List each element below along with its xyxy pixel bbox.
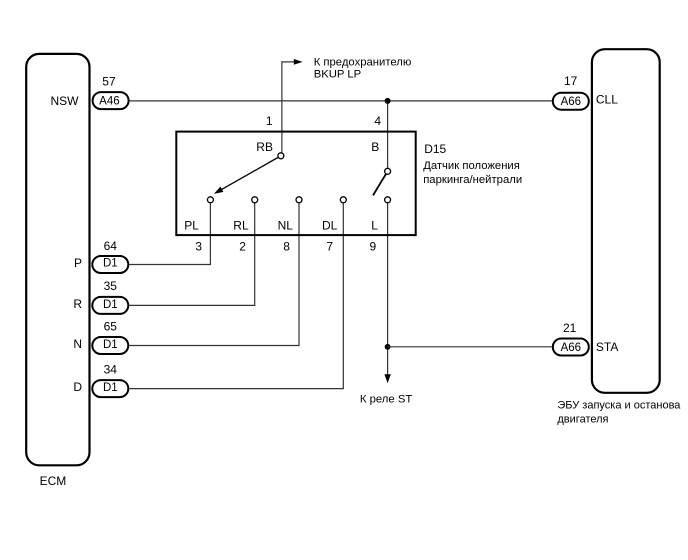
pin number 35 [104, 279, 118, 293]
svg-text:PL: PL [184, 219, 199, 233]
wire pin 1 riser to fuse BKUP LP with arrow [282, 59, 303, 153]
junction dot at STA branch [385, 344, 391, 350]
pin label NL [278, 219, 294, 233]
pin label PL [184, 219, 199, 233]
svg-text:65: 65 [104, 320, 118, 334]
svg-text:17: 17 [564, 74, 578, 88]
pin number 8 [283, 239, 290, 253]
svg-text:NL: NL [278, 219, 294, 233]
pin number 64 [104, 239, 118, 253]
pin number 9 [370, 239, 377, 253]
svg-text:D1: D1 [103, 339, 118, 351]
pin label L [371, 219, 378, 233]
ЭБУ label [557, 399, 681, 425]
svg-text:RL: RL [233, 219, 249, 233]
ECM label [40, 474, 67, 488]
pin label RL [233, 219, 249, 233]
svg-text:P: P [74, 256, 82, 270]
terminal A66 (CLL pin 17) [553, 93, 589, 110]
terminal A46 (NSW pin 57) [93, 92, 129, 109]
svg-text:ЭБУ запуска и останова: ЭБУ запуска и останова [557, 399, 681, 411]
wire R row (D1 to RL pin 2) [129, 203, 254, 305]
park/neutral position switch D15 box [176, 132, 415, 236]
pin number 21 [563, 321, 577, 335]
wire P row (D1 to PL pin 3) [129, 203, 210, 264]
pin number 7 [326, 239, 333, 253]
svg-text:D1: D1 [103, 299, 118, 311]
svg-text:A66: A66 [561, 96, 581, 108]
pin contact RL [252, 197, 258, 203]
pin name CLL [596, 93, 618, 107]
wire D row (D1 to DL pin 7) [129, 203, 343, 388]
svg-text:NSW: NSW [51, 94, 80, 108]
svg-text:RB: RB [256, 140, 273, 154]
pin number 1 [266, 114, 273, 128]
pin label B [371, 140, 379, 154]
svg-text:CLL: CLL [596, 93, 618, 107]
pin number 57 [102, 74, 116, 88]
junction dot at main wire [385, 98, 391, 104]
svg-text:L: L [371, 219, 378, 233]
pin number 3 [195, 239, 202, 253]
svg-text:К реле ST: К реле ST [360, 393, 412, 405]
pin number 34 [104, 363, 118, 377]
svg-text:A66: A66 [561, 342, 581, 354]
ECM connector box [26, 54, 89, 465]
svg-text:STA: STA [596, 340, 618, 354]
svg-text:ECM: ECM [40, 474, 67, 488]
pin contact RB [278, 153, 284, 159]
pin contact NL [296, 197, 302, 203]
svg-text:B: B [371, 140, 379, 154]
pin number 4 [374, 114, 381, 128]
svg-text:8: 8 [283, 239, 290, 253]
svg-text:D15: D15 [424, 142, 446, 156]
label D15 Датчик положения паркинга/нейтрали [423, 142, 522, 186]
pin number 17 [564, 74, 578, 88]
terminal D1 (R pin 35) [92, 297, 128, 314]
svg-text:двигателя: двигателя [557, 413, 608, 425]
svg-text:Датчик положения: Датчик положения [423, 160, 520, 172]
svg-text:2: 2 [239, 239, 246, 253]
svg-text:34: 34 [104, 363, 118, 377]
wire pin 4 riser (B to main wire) [387, 101, 389, 168]
svg-text:9: 9 [370, 239, 377, 253]
svg-text:35: 35 [104, 279, 118, 293]
pin contact PL [207, 197, 213, 203]
svg-text:DL: DL [322, 219, 338, 233]
svg-text:1: 1 [266, 114, 273, 128]
svg-text:57: 57 [102, 74, 116, 88]
svg-text:A46: A46 [99, 96, 119, 108]
svg-text:К предохранителю: К предохранителю [314, 56, 412, 68]
wire STA branch to A66 [388, 346, 552, 348]
switch blade B (open) [373, 174, 386, 195]
pin name P [74, 256, 82, 270]
svg-text:3: 3 [195, 239, 202, 253]
label К предохранителю BKUP LP [314, 56, 412, 80]
label К реле ST [360, 393, 412, 405]
pin name NSW [51, 94, 80, 108]
svg-text:N: N [73, 337, 82, 351]
svg-text:R: R [73, 297, 82, 311]
svg-text:D: D [73, 380, 82, 394]
pin label DL [322, 219, 338, 233]
svg-text:D1: D1 [103, 382, 118, 394]
pin contact L [385, 197, 391, 203]
terminal D1 (N pin 65) [92, 337, 128, 354]
pin name R [73, 297, 82, 311]
wire NSW A46 to CLL A66 (main top wire) [130, 100, 552, 102]
pin name D [73, 380, 82, 394]
svg-text:D1: D1 [103, 257, 118, 269]
svg-text:паркинга/нейтрали: паркинга/нейтрали [423, 174, 522, 186]
ЭБУ запуска и останова двигателя connector box [592, 49, 660, 393]
pin number 2 [239, 239, 246, 253]
svg-text:BKUP LP: BKUP LP [314, 68, 362, 80]
svg-text:4: 4 [374, 114, 381, 128]
terminal D1 (P pin 64) [92, 256, 128, 273]
terminal D1 (D pin 34) [92, 380, 128, 397]
pin contact B [385, 168, 391, 174]
pin contact DL [340, 197, 346, 203]
svg-text:64: 64 [104, 239, 118, 253]
pin name N [73, 337, 82, 351]
svg-text:7: 7 [326, 239, 333, 253]
terminal A66 (STA pin 21) [553, 339, 589, 356]
wire pin 9 dropper (L to relay ST) with arrow [384, 203, 390, 383]
pin number 65 [104, 320, 118, 334]
switch arm RB to PL (arrow) [214, 158, 278, 194]
svg-text:21: 21 [563, 321, 577, 335]
pin name STA [596, 340, 618, 354]
pin label RB [256, 140, 273, 154]
wire N row (D1 to NL pin 8) [129, 203, 299, 345]
